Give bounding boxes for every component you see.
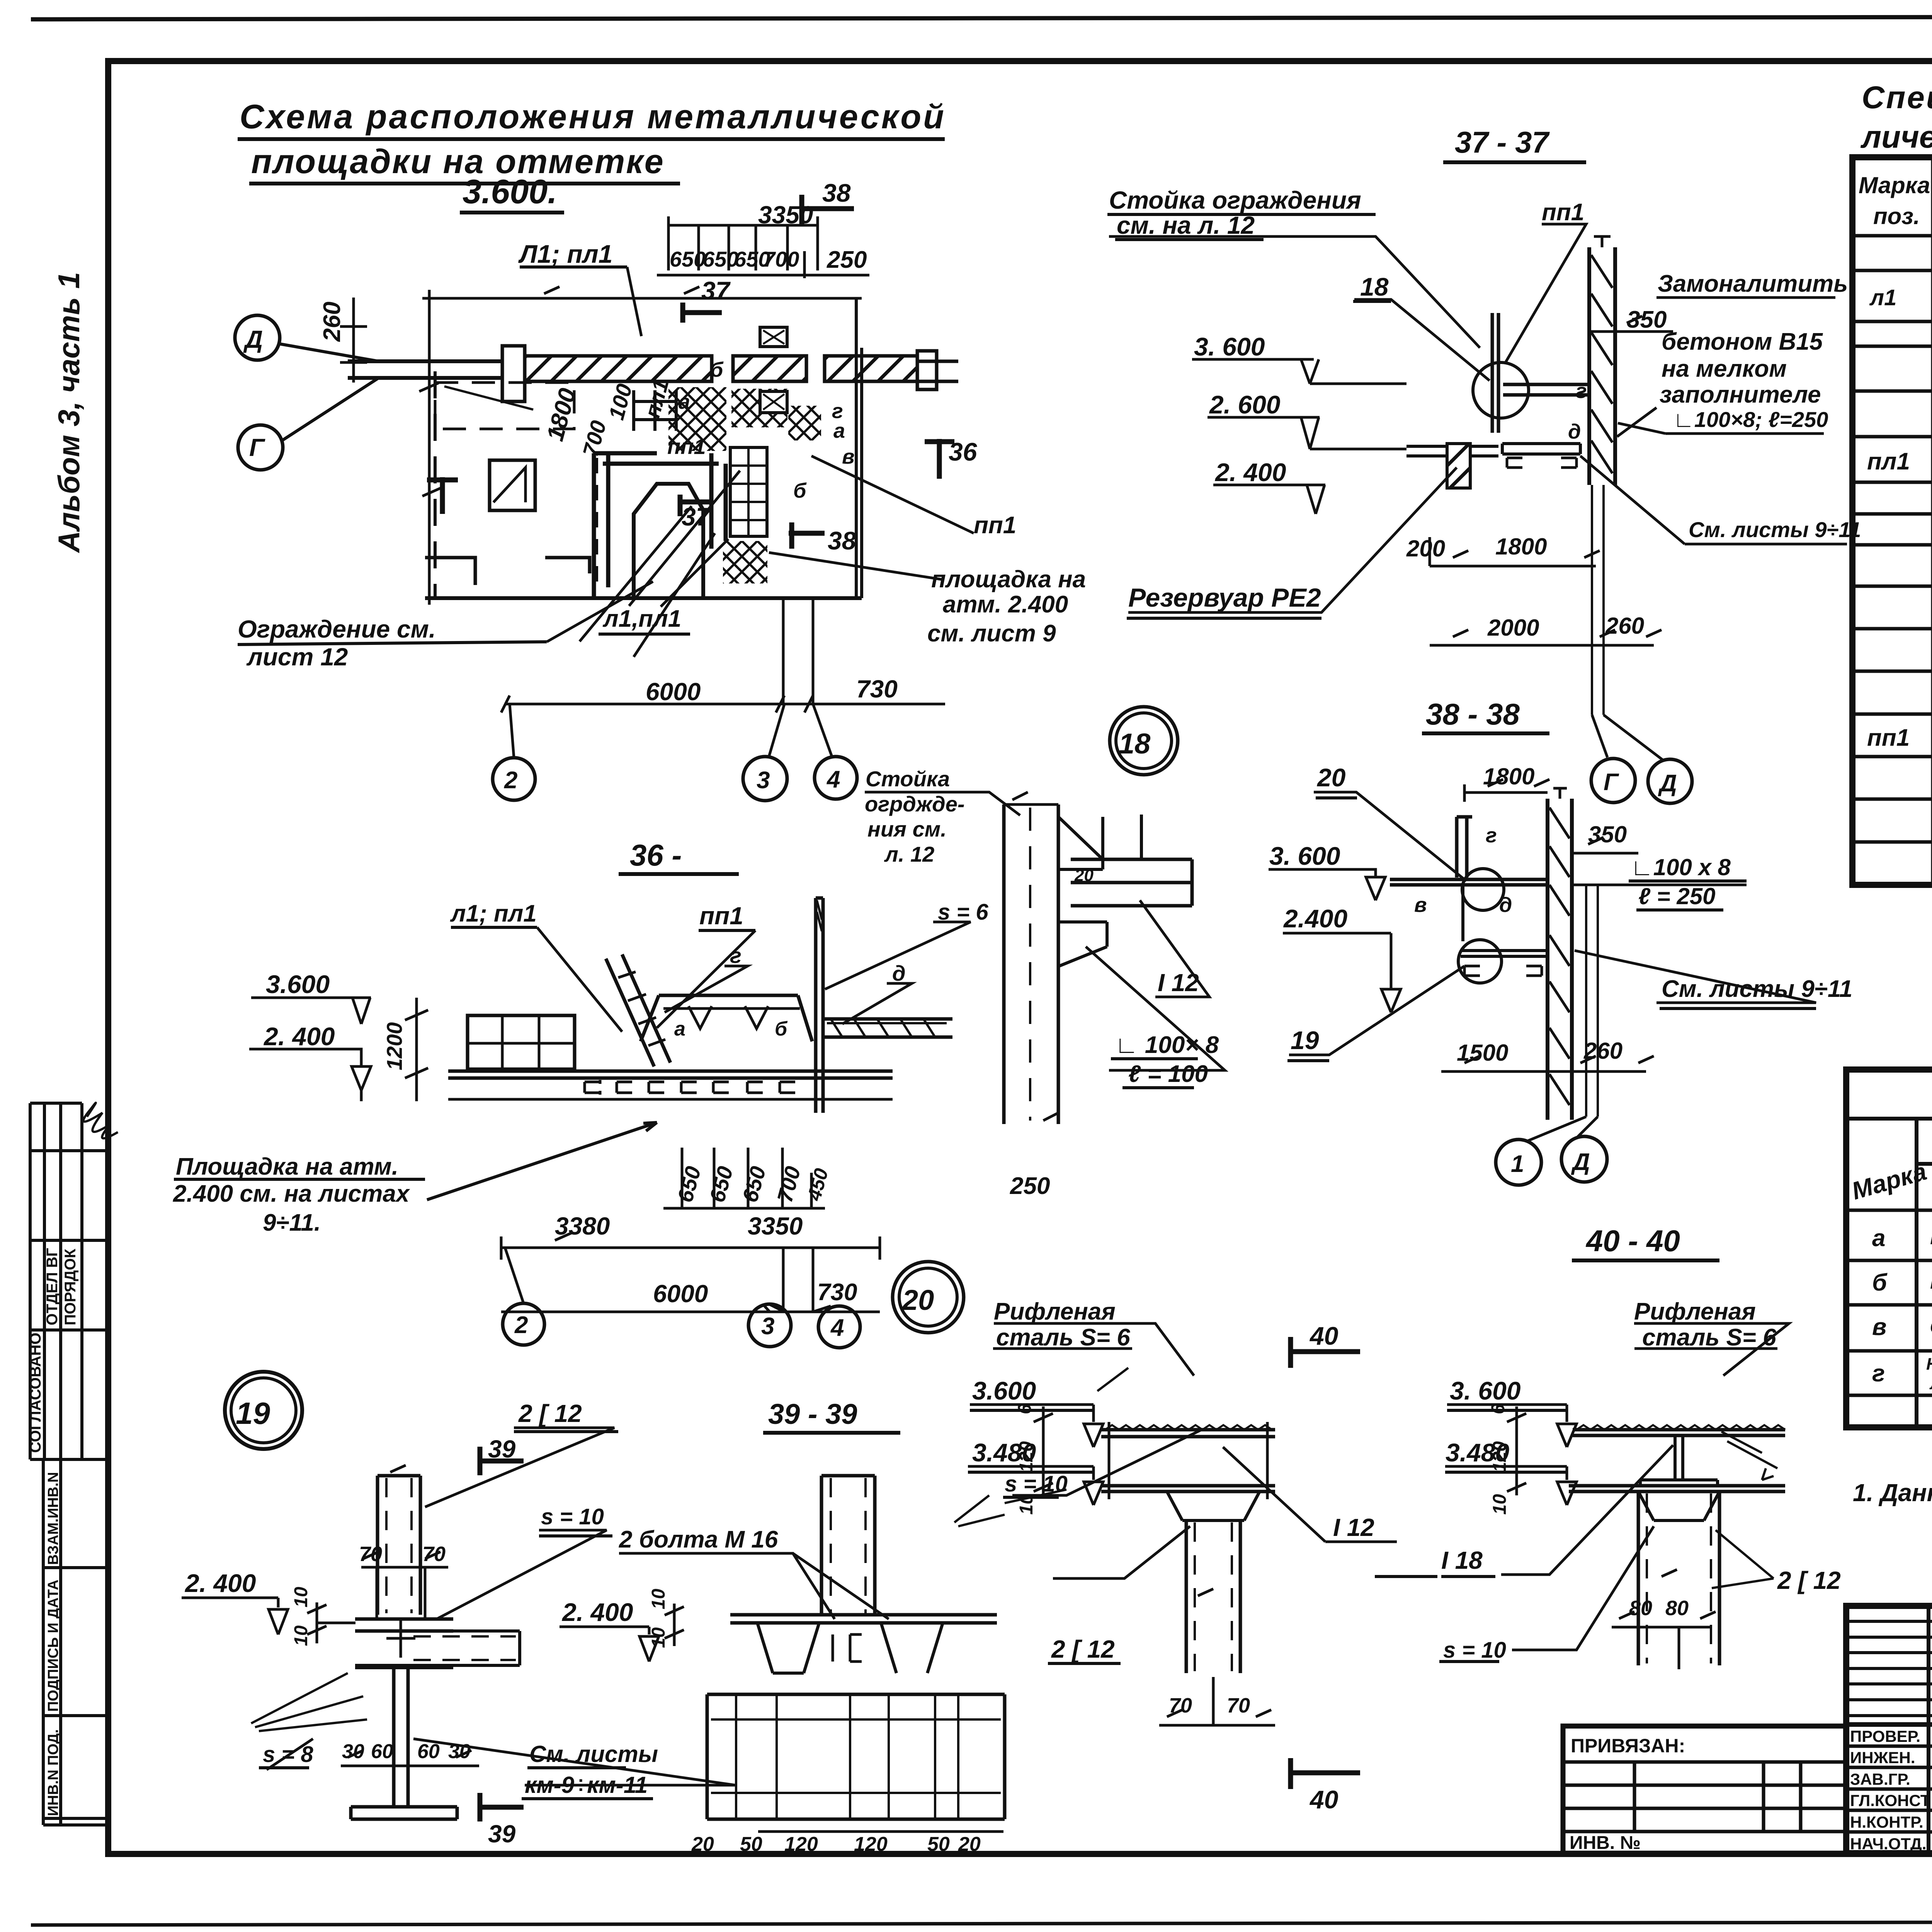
svg-text:80: 80 bbox=[1629, 1597, 1652, 1620]
svg-text:лист 12: лист 12 bbox=[246, 643, 348, 671]
svg-text:60: 60 bbox=[417, 1740, 440, 1763]
svg-text:Г: Г bbox=[1604, 769, 1619, 796]
svg-text:Замоналитить: Замоналитить bbox=[1658, 270, 1848, 297]
svg-text:37: 37 bbox=[682, 502, 711, 531]
svg-text:Г: Г bbox=[249, 434, 265, 461]
svg-text:1500: 1500 bbox=[1457, 1040, 1508, 1066]
svg-text:Н.КОНТР.: Н.КОНТР. bbox=[1850, 1813, 1923, 1831]
svg-text:б: б bbox=[793, 479, 807, 502]
svg-text:10: 10 bbox=[648, 1588, 669, 1609]
svg-text:Стойка: Стойка bbox=[866, 767, 950, 791]
svg-text:км-9÷км-11: км-9÷км-11 bbox=[525, 1772, 648, 1798]
svg-text:б: б bbox=[710, 358, 724, 381]
svg-text:пп1: пп1 bbox=[699, 902, 743, 930]
svg-text:2. 400: 2. 400 bbox=[263, 1022, 335, 1051]
svg-text:I 12: I 12 bbox=[1333, 1514, 1374, 1541]
svg-text:40: 40 bbox=[1309, 1321, 1338, 1350]
svg-text:s = 6: s = 6 bbox=[938, 900, 988, 925]
svg-text:20: 20 bbox=[1074, 866, 1094, 885]
svg-text:6000: 6000 bbox=[653, 1280, 708, 1308]
svg-text:1800: 1800 bbox=[1483, 764, 1534, 789]
svg-text:1. Данный чертеж см. совместно: 1. Данный чертеж см. совместно с листами… bbox=[1853, 1479, 1932, 1507]
svg-text:3. 600: 3. 600 bbox=[1269, 842, 1340, 870]
svg-text:а: а bbox=[679, 390, 690, 413]
svg-text:18: 18 bbox=[1360, 272, 1389, 301]
svg-text:то же: то же bbox=[1930, 1267, 1932, 1294]
svg-text:650: 650 bbox=[673, 1164, 706, 1205]
svg-text:700: 700 bbox=[772, 1164, 805, 1205]
svg-text:20: 20 bbox=[1316, 763, 1346, 792]
svg-text:19: 19 bbox=[1291, 1026, 1319, 1054]
svg-text:∟ 100× 8: ∟ 100× 8 bbox=[1115, 1032, 1219, 1058]
svg-text:лической площадки на отметке 3: лической площадки на отметке 3.600. bbox=[1860, 119, 1932, 155]
svg-text:6000: 6000 bbox=[646, 678, 701, 706]
svg-text:ℓ = 250: ℓ = 250 bbox=[1638, 883, 1715, 909]
svg-text:а: а bbox=[674, 1018, 685, 1040]
svg-text:70: 70 bbox=[422, 1543, 446, 1566]
svg-text:ИНВ.N ПОД.: ИНВ.N ПОД. bbox=[45, 1729, 61, 1816]
svg-text:39: 39 bbox=[488, 1820, 516, 1848]
svg-text:г: г bbox=[730, 943, 742, 968]
svg-text:I 12: I 12 bbox=[1158, 969, 1199, 997]
svg-text:120: 120 bbox=[1016, 1441, 1037, 1472]
svg-text:650: 650 bbox=[670, 247, 706, 271]
svg-text:450: 450 bbox=[803, 1166, 832, 1203]
svg-text:260: 260 bbox=[1583, 1038, 1622, 1064]
svg-text:9÷11.: 9÷11. bbox=[263, 1209, 321, 1236]
svg-text:s = 10: s = 10 bbox=[541, 1504, 604, 1529]
svg-text:730: 730 bbox=[817, 1279, 857, 1306]
svg-text:37: 37 bbox=[701, 276, 731, 305]
svg-text:39 - 39: 39 - 39 bbox=[768, 1398, 857, 1430]
svg-text:на мелком: на мелком bbox=[1662, 355, 1787, 382]
svg-text:2 [ 12: 2 [ 12 bbox=[1051, 1635, 1115, 1663]
svg-text:40: 40 bbox=[1309, 1785, 1338, 1814]
svg-text:20: 20 bbox=[958, 1833, 981, 1855]
svg-text:стойка: стойка bbox=[1930, 1312, 1932, 1338]
svg-text:80: 80 bbox=[1665, 1597, 1689, 1620]
svg-text:СОГЛАСОВАНО.: СОГЛАСОВАНО. bbox=[27, 1328, 44, 1453]
svg-text:70: 70 bbox=[359, 1543, 382, 1566]
svg-text:120: 120 bbox=[784, 1833, 818, 1855]
svg-text:Д: Д bbox=[1571, 1149, 1590, 1175]
svg-text:площадки на отметке: площадки на отметке bbox=[251, 142, 665, 180]
svg-text:19: 19 bbox=[236, 1396, 270, 1430]
svg-text:2 [ 12: 2 [ 12 bbox=[1777, 1566, 1841, 1594]
svg-text:б: б bbox=[1872, 1269, 1888, 1296]
svg-text:30: 30 bbox=[342, 1740, 364, 1763]
svg-text:200: 200 bbox=[1406, 536, 1445, 561]
svg-text:∟100×8; ℓ=250: ∟100×8; ℓ=250 bbox=[1673, 407, 1828, 432]
svg-text:36 -: 36 - bbox=[630, 838, 682, 872]
svg-text:Схема расположения металлическ: Схема расположения металлической bbox=[240, 97, 946, 136]
svg-text:ИНЖЕН.: ИНЖЕН. bbox=[1850, 1748, 1915, 1767]
svg-text:Альбом 3, часть 1: Альбом 3, часть 1 bbox=[52, 272, 86, 553]
svg-text:НАЧ.ОТД.: НАЧ.ОТД. bbox=[1850, 1835, 1927, 1853]
svg-text:1: 1 bbox=[1511, 1151, 1524, 1177]
svg-text:ПОДПИСЬ И ДАТА: ПОДПИСЬ И ДАТА bbox=[45, 1580, 61, 1712]
svg-text:пп1: пп1 bbox=[1867, 724, 1910, 751]
svg-text:а: а bbox=[833, 419, 845, 442]
svg-text:г: г bbox=[1872, 1360, 1885, 1387]
svg-text:70: 70 bbox=[1169, 1694, 1192, 1717]
svg-text:пп1: пп1 bbox=[974, 512, 1016, 539]
svg-text:См. листы: См. листы bbox=[529, 1741, 658, 1767]
svg-text:18: 18 bbox=[1119, 728, 1151, 760]
svg-text:3380: 3380 bbox=[555, 1212, 610, 1240]
svg-text:700: 700 bbox=[763, 247, 799, 271]
svg-text:260: 260 bbox=[1605, 613, 1644, 639]
svg-text:2. 400: 2. 400 bbox=[561, 1598, 633, 1626]
svg-text:350: 350 bbox=[1627, 306, 1667, 333]
svg-text:20: 20 bbox=[691, 1833, 714, 1855]
svg-text:л. 12: л. 12 bbox=[884, 842, 934, 866]
svg-text:60: 60 bbox=[371, 1740, 393, 1763]
svg-text:Балка: Балка bbox=[1930, 1223, 1932, 1250]
svg-text:4: 4 bbox=[830, 1315, 844, 1341]
svg-text:ния см.: ния см. bbox=[867, 817, 947, 841]
svg-text:650: 650 bbox=[738, 1164, 770, 1205]
svg-text:2. 400: 2. 400 bbox=[184, 1569, 256, 1597]
svg-text:л1: л1 bbox=[1869, 285, 1896, 310]
svg-text:1800: 1800 bbox=[542, 386, 581, 444]
svg-text:сталь S= 6: сталь S= 6 bbox=[996, 1324, 1130, 1351]
svg-text:120: 120 bbox=[1490, 1441, 1510, 1472]
svg-text:л1; пл1: л1; пл1 bbox=[450, 900, 537, 927]
svg-text:650: 650 bbox=[705, 1164, 738, 1205]
svg-text:3. 600: 3. 600 bbox=[1450, 1376, 1521, 1405]
svg-text:леной стали: леной стали bbox=[1929, 1374, 1932, 1393]
svg-text:2.400: 2.400 bbox=[1283, 904, 1347, 933]
svg-text:ОТДЕЛ ВГ: ОТДЕЛ ВГ bbox=[44, 1248, 61, 1325]
svg-text:в: в bbox=[842, 445, 855, 468]
svg-text:250: 250 bbox=[1010, 1173, 1050, 1199]
svg-text:39: 39 bbox=[488, 1435, 516, 1463]
svg-text:сталь S= 6: сталь S= 6 bbox=[1642, 1324, 1776, 1351]
svg-text:ВЗАМ.ИНВ.N: ВЗАМ.ИНВ.N bbox=[45, 1472, 61, 1565]
svg-text:Спецификация к схеме расположе: Спецификация к схеме расположения метал- bbox=[1862, 80, 1932, 115]
svg-text:См. листы 9÷11: См. листы 9÷11 bbox=[1689, 517, 1861, 542]
svg-text:20: 20 bbox=[901, 1284, 934, 1316]
svg-text:38 - 38: 38 - 38 bbox=[1426, 697, 1520, 731]
svg-text:3: 3 bbox=[757, 767, 770, 794]
svg-text:ЗАВ.ГР.: ЗАВ.ГР. bbox=[1850, 1770, 1910, 1788]
svg-text:площадка на: площадка на bbox=[931, 566, 1086, 593]
svg-text:поз.: поз. bbox=[1873, 203, 1920, 229]
svg-text:40 - 40: 40 - 40 bbox=[1585, 1224, 1680, 1258]
svg-text:Марка: Марка bbox=[1859, 172, 1930, 198]
svg-text:2 болта М 16: 2 болта М 16 bbox=[619, 1526, 778, 1553]
svg-text:ℓ = 100: ℓ = 100 bbox=[1128, 1061, 1208, 1087]
svg-text:∟100 x 8: ∟100 x 8 bbox=[1631, 854, 1731, 880]
svg-text:3.600.: 3.600. bbox=[463, 172, 557, 211]
svg-text:атм. 2.400: атм. 2.400 bbox=[943, 591, 1068, 618]
svg-text:38: 38 bbox=[822, 179, 851, 207]
svg-text:д: д bbox=[1568, 420, 1581, 443]
svg-text:30: 30 bbox=[448, 1740, 471, 1763]
svg-text:2: 2 bbox=[504, 767, 517, 794]
svg-text:I 18: I 18 bbox=[1441, 1546, 1483, 1574]
svg-text:см. лист 9: см. лист 9 bbox=[927, 620, 1056, 647]
svg-text:10: 10 bbox=[291, 1587, 311, 1607]
svg-text:s = 8: s = 8 bbox=[263, 1742, 313, 1767]
svg-text:ПРИВЯЗАН:: ПРИВЯЗАН: bbox=[1571, 1735, 1685, 1757]
svg-text:Стойка ограждения: Стойка ограждения bbox=[1109, 186, 1361, 214]
svg-text:260: 260 bbox=[319, 302, 345, 342]
svg-text:100: 100 bbox=[604, 381, 637, 423]
svg-text:3350: 3350 bbox=[758, 201, 813, 229]
svg-text:пп1: пп1 bbox=[1542, 199, 1584, 226]
svg-text:2 [ 12: 2 [ 12 bbox=[518, 1400, 582, 1427]
svg-text:д: д bbox=[892, 961, 906, 985]
svg-text:Площадка на атм.: Площадка на атм. bbox=[176, 1153, 398, 1180]
svg-text:заполнителе: заполнителе bbox=[1660, 381, 1821, 408]
svg-text:Резервуар РЕ2: Резервуар РЕ2 bbox=[1128, 583, 1321, 612]
svg-text:3350: 3350 bbox=[748, 1212, 803, 1240]
svg-text:730: 730 bbox=[856, 675, 898, 703]
svg-text:пл1: пл1 bbox=[1867, 448, 1910, 475]
svg-text:ГЛ.КОНСТ: ГЛ.КОНСТ bbox=[1850, 1791, 1930, 1810]
svg-text:д: д bbox=[1499, 893, 1512, 917]
svg-text:ИНВ. №: ИНВ. № bbox=[1570, 1833, 1641, 1853]
svg-text:Рифленая: Рифленая bbox=[994, 1298, 1116, 1325]
svg-text:50: 50 bbox=[740, 1833, 762, 1855]
svg-text:в: в bbox=[1414, 893, 1427, 917]
svg-text:s = 10: s = 10 bbox=[1005, 1471, 1068, 1497]
svg-text:а: а bbox=[1872, 1225, 1885, 1252]
svg-text:s = 10: s = 10 bbox=[1443, 1638, 1506, 1663]
svg-text:3. 600: 3. 600 bbox=[1194, 332, 1265, 361]
svg-text:пп1: пп1 bbox=[667, 434, 706, 459]
svg-text:120: 120 bbox=[854, 1833, 888, 1855]
svg-text:10: 10 bbox=[648, 1627, 669, 1648]
svg-text:37 - 37: 37 - 37 bbox=[1455, 125, 1550, 159]
svg-text:Рифленая: Рифленая bbox=[1634, 1298, 1756, 1325]
svg-text:2. 400: 2. 400 bbox=[1214, 458, 1286, 486]
svg-text:50: 50 bbox=[927, 1833, 950, 1855]
svg-text:3: 3 bbox=[761, 1313, 774, 1340]
svg-text:Д: Д bbox=[1658, 770, 1677, 797]
svg-text:л1,пл1: л1,пл1 bbox=[602, 605, 681, 632]
svg-text:ПРОВЕР.: ПРОВЕР. bbox=[1850, 1727, 1920, 1745]
svg-text:2: 2 bbox=[514, 1312, 528, 1338]
svg-text:350: 350 bbox=[1588, 821, 1627, 847]
svg-text:10: 10 bbox=[291, 1625, 311, 1646]
svg-text:пл1: пл1 bbox=[640, 377, 673, 420]
svg-text:бетоном В15: бетоном В15 bbox=[1662, 328, 1823, 355]
svg-text:650: 650 bbox=[702, 247, 738, 271]
svg-text:Настил из риф-: Настил из риф- bbox=[1926, 1355, 1932, 1374]
svg-text:ПОРЯДОК: ПОРЯДОК bbox=[62, 1248, 79, 1325]
svg-text:Ограждение см.: Ограждение см. bbox=[238, 615, 436, 643]
svg-text:3.600: 3.600 bbox=[972, 1376, 1036, 1405]
svg-text:2000: 2000 bbox=[1487, 615, 1539, 641]
svg-text:2.400 см. на листах: 2.400 см. на листах bbox=[173, 1180, 410, 1207]
svg-text:1200: 1200 bbox=[382, 1022, 406, 1070]
svg-text:4: 4 bbox=[826, 766, 840, 793]
svg-text:250: 250 bbox=[827, 247, 867, 273]
svg-text:г: г bbox=[1576, 379, 1587, 403]
svg-text:70: 70 bbox=[1227, 1694, 1250, 1717]
svg-text:в: в bbox=[1872, 1314, 1886, 1340]
svg-text:б: б bbox=[775, 1018, 788, 1040]
svg-text:огрджде-: огрджде- bbox=[865, 792, 965, 816]
svg-text:Л1; пл1: Л1; пл1 bbox=[518, 240, 612, 268]
svg-text:См. листы 9÷11: См. листы 9÷11 bbox=[1662, 976, 1852, 1002]
svg-text:10: 10 bbox=[1490, 1494, 1510, 1515]
svg-text:2. 600: 2. 600 bbox=[1209, 390, 1281, 419]
svg-text:1800: 1800 bbox=[1495, 534, 1547, 560]
svg-text:г: г bbox=[1486, 824, 1497, 847]
svg-text:Д: Д bbox=[243, 325, 263, 353]
svg-text:3.600: 3.600 bbox=[266, 970, 330, 998]
svg-text:36: 36 bbox=[949, 437, 978, 466]
svg-text:38: 38 bbox=[828, 526, 856, 555]
